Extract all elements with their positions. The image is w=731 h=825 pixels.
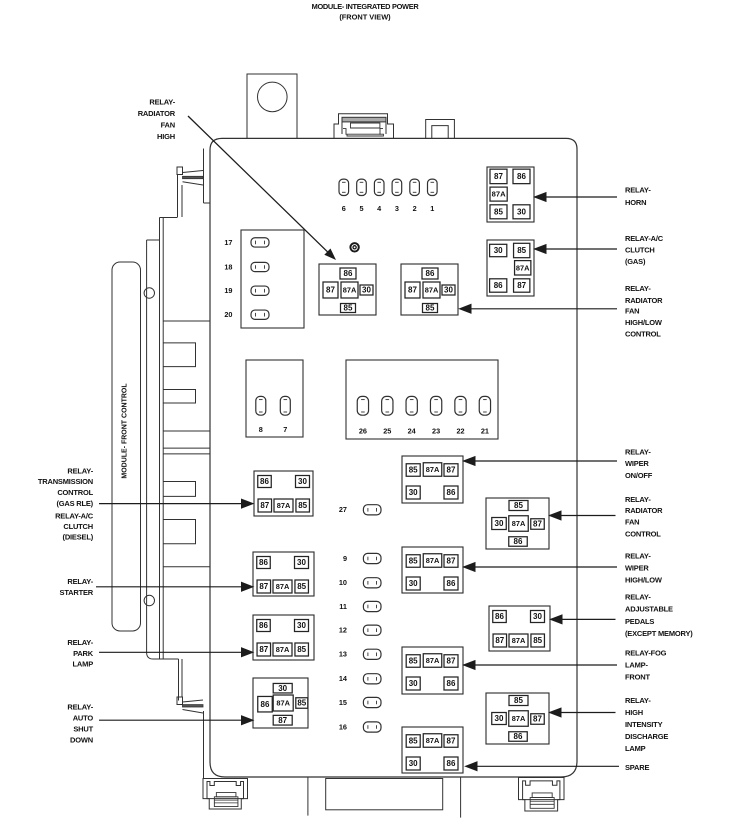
svg-text:RELAY-: RELAY- (625, 186, 651, 195)
svg-text:FRONT: FRONT (625, 673, 650, 682)
svg-text:13: 13 (339, 650, 347, 659)
svg-text:20: 20 (224, 310, 232, 319)
svg-text:87A: 87A (426, 465, 440, 474)
svg-text:30: 30 (495, 714, 504, 723)
svg-text:85: 85 (409, 737, 418, 746)
svg-text:2: 2 (413, 204, 417, 213)
svg-text:PEDALS: PEDALS (625, 617, 654, 626)
svg-text:87: 87 (494, 172, 503, 181)
svg-text:85: 85 (426, 304, 435, 313)
svg-text:87A: 87A (492, 190, 506, 199)
svg-text:FAN: FAN (161, 121, 175, 130)
svg-text:ON/OFF: ON/OFF (625, 471, 653, 480)
svg-text:30: 30 (444, 286, 453, 295)
svg-text:87A: 87A (512, 714, 526, 723)
svg-text:21: 21 (481, 426, 489, 435)
svg-text:85: 85 (409, 657, 418, 666)
svg-text:LAMP: LAMP (625, 744, 646, 753)
svg-text:87A: 87A (426, 556, 440, 565)
svg-text:86: 86 (447, 759, 456, 768)
svg-text:87A: 87A (343, 285, 357, 294)
svg-text:87A: 87A (512, 519, 526, 528)
svg-text:86: 86 (260, 477, 269, 486)
svg-text:85: 85 (514, 501, 523, 510)
svg-text:24: 24 (408, 426, 417, 435)
svg-text:23: 23 (432, 426, 440, 435)
svg-text:LAMP-: LAMP- (625, 661, 648, 670)
svg-text:30: 30 (297, 621, 306, 630)
svg-text:15: 15 (339, 698, 347, 707)
svg-text:HORN: HORN (625, 198, 646, 207)
svg-text:FAN: FAN (625, 307, 639, 316)
svg-text:RADIATOR: RADIATOR (138, 109, 176, 118)
svg-text:17: 17 (224, 238, 232, 247)
svg-text:AUTO: AUTO (73, 714, 94, 723)
svg-text:12: 12 (339, 626, 347, 635)
svg-text:16: 16 (339, 722, 347, 731)
svg-text:DOWN: DOWN (70, 735, 93, 744)
svg-text:10: 10 (339, 578, 347, 587)
svg-text:RELAY-: RELAY- (67, 638, 93, 647)
svg-text:87: 87 (260, 501, 269, 510)
svg-text:INTENSITY: INTENSITY (625, 720, 663, 729)
svg-text:RADIATOR: RADIATOR (625, 506, 663, 515)
svg-text:WIPER: WIPER (625, 459, 649, 468)
svg-text:86: 86 (514, 732, 523, 741)
svg-text:STARTER: STARTER (60, 588, 94, 597)
svg-text:85: 85 (297, 645, 306, 654)
svg-text:26: 26 (359, 426, 367, 435)
svg-text:(GAS RLE): (GAS RLE) (56, 499, 93, 508)
svg-text:11: 11 (339, 602, 347, 611)
svg-text:RELAY-: RELAY- (625, 696, 651, 705)
svg-text:RELAY-: RELAY- (625, 495, 651, 504)
svg-text:30: 30 (533, 612, 542, 621)
svg-text:CONTROL: CONTROL (57, 488, 93, 497)
svg-text:87: 87 (447, 657, 456, 666)
svg-text:WIPER: WIPER (625, 564, 649, 573)
svg-text:87: 87 (259, 645, 268, 654)
svg-text:RELAY-A/C: RELAY-A/C (625, 234, 664, 243)
svg-text:86: 86 (495, 612, 504, 621)
svg-text:85: 85 (517, 246, 526, 255)
svg-text:1: 1 (430, 204, 434, 213)
svg-text:CONTROL: CONTROL (625, 529, 661, 538)
svg-text:14: 14 (339, 674, 348, 683)
svg-text:HIGH/LOW: HIGH/LOW (625, 318, 663, 327)
svg-text:18: 18 (224, 262, 232, 271)
svg-text:RELAY-: RELAY- (625, 593, 651, 602)
svg-text:87: 87 (447, 466, 456, 475)
svg-text:PARK: PARK (73, 649, 94, 658)
svg-text:87A: 87A (425, 285, 439, 294)
svg-text:MODULE- INTEGRATED POWER: MODULE- INTEGRATED POWER (312, 2, 420, 11)
svg-text:30: 30 (362, 286, 371, 295)
svg-text:RELAY-: RELAY- (67, 703, 93, 712)
svg-text:85: 85 (409, 466, 418, 475)
svg-text:86: 86 (494, 281, 503, 290)
svg-text:DISCHARGE: DISCHARGE (625, 732, 668, 741)
svg-text:MODULE- FRONT CONTROL: MODULE- FRONT CONTROL (122, 383, 129, 479)
svg-text:30: 30 (298, 477, 307, 486)
svg-text:30: 30 (297, 558, 306, 567)
svg-text:85: 85 (297, 699, 306, 708)
svg-text:87A: 87A (276, 582, 290, 591)
svg-text:RELAY-A/C: RELAY-A/C (55, 512, 94, 521)
svg-text:19: 19 (224, 286, 232, 295)
svg-text:87: 87 (326, 286, 335, 295)
svg-text:30: 30 (494, 246, 503, 255)
svg-text:87: 87 (278, 716, 287, 725)
svg-text:3: 3 (395, 204, 399, 213)
svg-text:86: 86 (517, 172, 526, 181)
svg-text:87A: 87A (426, 656, 440, 665)
svg-text:86: 86 (447, 488, 456, 497)
svg-text:85: 85 (494, 207, 503, 216)
svg-text:CONTROL: CONTROL (625, 330, 661, 339)
svg-text:22: 22 (456, 426, 464, 435)
svg-text:87: 87 (533, 715, 542, 724)
svg-text:30: 30 (409, 488, 418, 497)
svg-text:30: 30 (495, 519, 504, 528)
svg-text:6: 6 (342, 204, 346, 213)
svg-text:HIGH: HIGH (625, 708, 643, 717)
svg-text:86: 86 (447, 679, 456, 688)
svg-text:87A: 87A (516, 263, 530, 272)
svg-text:85: 85 (514, 696, 523, 705)
svg-text:85: 85 (344, 304, 353, 313)
svg-text:87A: 87A (512, 636, 526, 645)
svg-text:9: 9 (343, 554, 347, 563)
svg-text:86: 86 (259, 621, 268, 630)
svg-text:87: 87 (533, 520, 542, 529)
svg-text:LAMP: LAMP (73, 659, 94, 668)
svg-text:HIGH: HIGH (157, 132, 175, 141)
svg-text:87: 87 (259, 582, 268, 591)
svg-text:30: 30 (409, 579, 418, 588)
svg-text:RELAY-FOG: RELAY-FOG (625, 649, 667, 658)
svg-text:87A: 87A (426, 736, 440, 745)
svg-text:RELAY-: RELAY- (67, 577, 93, 586)
svg-text:(GAS): (GAS) (625, 257, 646, 266)
svg-text:RELAY-: RELAY- (67, 466, 93, 475)
svg-text:27: 27 (339, 505, 347, 514)
svg-text:87: 87 (408, 286, 417, 295)
svg-text:RADIATOR: RADIATOR (625, 296, 663, 305)
svg-text:(EXCEPT MEMORY): (EXCEPT MEMORY) (625, 629, 693, 638)
svg-text:ADJUSTABLE: ADJUSTABLE (625, 605, 673, 614)
svg-text:8: 8 (259, 425, 263, 434)
svg-text:30: 30 (409, 679, 418, 688)
svg-text:RELAY-: RELAY- (625, 448, 651, 457)
svg-text:85: 85 (409, 557, 418, 566)
svg-text:HIGH/LOW: HIGH/LOW (625, 576, 663, 585)
svg-text:86: 86 (514, 537, 523, 546)
svg-text:86: 86 (447, 579, 456, 588)
svg-text:86: 86 (344, 269, 353, 278)
svg-text:RELAY-: RELAY- (149, 97, 175, 106)
svg-text:CLUTCH: CLUTCH (63, 522, 93, 531)
svg-text:30: 30 (517, 207, 526, 216)
svg-text:CLUTCH: CLUTCH (625, 245, 655, 254)
svg-text:87A: 87A (276, 698, 290, 707)
svg-text:86: 86 (259, 558, 268, 567)
svg-text:87: 87 (447, 737, 456, 746)
svg-text:87: 87 (495, 636, 504, 645)
svg-text:87: 87 (517, 281, 526, 290)
svg-text:85: 85 (533, 636, 542, 645)
svg-text:SPARE: SPARE (625, 763, 649, 772)
svg-text:5: 5 (359, 204, 363, 213)
svg-text:30: 30 (278, 684, 287, 693)
svg-text:(DIESEL): (DIESEL) (63, 533, 94, 542)
svg-text:25: 25 (383, 426, 391, 435)
svg-text:85: 85 (298, 501, 307, 510)
svg-text:87A: 87A (277, 501, 291, 510)
svg-text:87A: 87A (276, 645, 290, 654)
svg-text:FAN: FAN (625, 517, 639, 526)
svg-text:RELAY-: RELAY- (625, 284, 651, 293)
svg-text:86: 86 (261, 700, 270, 709)
svg-text:87: 87 (447, 557, 456, 566)
svg-text:86: 86 (426, 269, 435, 278)
svg-text:(FRONT VIEW): (FRONT VIEW) (339, 12, 391, 21)
svg-text:SHUT: SHUT (73, 724, 93, 733)
svg-text:TRANSMISSION: TRANSMISSION (38, 477, 93, 486)
svg-text:30: 30 (409, 759, 418, 768)
svg-text:RELAY-: RELAY- (625, 552, 651, 561)
svg-text:85: 85 (297, 582, 306, 591)
svg-text:7: 7 (283, 425, 287, 434)
